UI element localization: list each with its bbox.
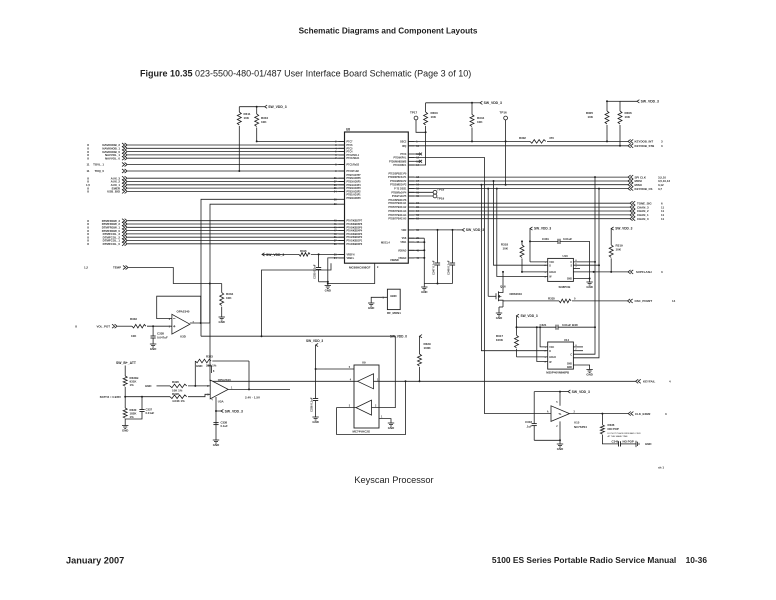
svg-text:47: 47 [416,241,419,244]
capacitor C33B [213,422,218,424]
svg-text:GND: GND [557,447,563,451]
pin 40 VDDAD [408,249,414,251]
svg-text:4: 4 [669,380,671,384]
svg-text:C: C [570,354,572,356]
wire DTMFCOL_1 [128,240,345,242]
wire U11 W [537,327,548,361]
wire TEMP to op-amp U3D output [129,268,222,284]
svg-text:PTC3: PTC3 [400,154,407,156]
svg-text:U8: U8 [346,128,350,132]
wire bus to U8 bottom [262,263,332,336]
wire MOSI [408,180,628,182]
svg-text:4: 4 [211,399,213,402]
svg-text:TOVL_1: TOVL_1 [93,163,104,167]
wire EMER [128,187,345,189]
power SW_VDD_3 (U9) [316,343,319,346]
power SW_VDD_3 (U3A) [216,410,221,412]
pin 12 PTD6/KPAL [408,157,414,159]
wire R303 top to SW_VDD_3 [426,102,472,104]
svg-text:PTA2/KBD2P2: PTA2/KBD2P2 [347,236,363,239]
svg-text:5: 5 [169,326,171,328]
svg-text:PTC0/TxD2: PTC0/TxD2 [347,171,360,173]
buffer U9A [358,374,374,389]
svg-text:DO NOT PLACE R336 AND C349: DO NOT PLACE R336 AND C349 [608,432,642,435]
svg-text:TOQ_0: TOQ_0 [95,169,105,173]
pin 52 PTD8/TPB4C-H5 [408,218,414,220]
resistor R335 inline [559,299,571,303]
wire U10 VCC [529,241,531,262]
svg-text:GND: GND [325,289,331,293]
wire U11 VCC [540,327,548,347]
svg-text:C: C [570,262,572,264]
svg-text:GND: GND [567,363,572,365]
svg-text:D: D [549,351,551,353]
connector KEYFAIL [636,379,641,383]
svg-text:0.01uF: 0.01uF [146,411,155,415]
capacitor C318 [533,392,535,424]
svg-text:PTB1/AD1P1: PTB1/AD1P1 [347,194,362,197]
power SW_VDD_3 (above R319) [611,227,614,230]
pin 28 PTE1 wire to lower bus [201,199,345,336]
svg-text:IRQ: IRQ [402,146,406,148]
svg-text:NAVVOL_0: NAVVOL_0 [105,156,120,160]
svg-text:8: 8 [75,324,77,328]
resistor R330 [124,397,126,408]
svg-text:8: 8 [213,371,215,373]
svg-text:3: 3 [574,411,576,413]
junction R311 to TOQ_0 [238,170,240,172]
wire CLK_EXM2 output [570,413,629,415]
ground U10 [589,279,591,283]
ground RF_MON1 [368,302,374,304]
pin 39 PTA0/KBD0P0 [339,243,345,245]
pin 7 U10 stub [573,268,580,270]
pin 51 PTA2/KBD2P2 [339,236,345,238]
pin 37 PTA1/KBD1P1 [339,240,345,242]
wire U3D output [190,322,210,324]
wire U10 D from MOSI [494,181,548,265]
svg-text:8: 8 [87,190,89,194]
svg-text:GND: GND [586,373,592,377]
svg-text:KEYFAIL: KEYFAIL [643,380,655,384]
svg-text:GND: GND [388,426,394,430]
resistor R333 inline [132,324,146,328]
pin 5 PTC4 [339,151,345,153]
test point TP16 [504,116,508,120]
svg-text:VREFL: VREFL [347,258,355,260]
resistor R323 feedback [194,361,196,386]
wire RF_MON1 pin 1 [371,297,387,303]
wire NAVKNOB_1 [128,147,345,149]
svg-text:TP19: TP19 [437,197,445,201]
svg-text:R335: R335 [548,296,555,300]
resistor R329 [419,336,421,354]
svg-text:SW_VDD_3: SW_VDD_3 [615,227,632,231]
svg-text:PTE2/SPB2C-P0: PTE2/SPB2C-P0 [388,173,407,175]
resistor R317 [516,327,518,335]
wire AUX_2 [128,181,345,183]
svg-text:VDDAD: VDDAD [398,249,407,252]
resistor R319 [610,229,612,245]
svg-text:TL: TL [558,412,562,416]
pin 24 PTB2/AD2P2 [339,190,345,192]
wire U11 D from MISO [481,185,547,351]
svg-text:CHAN_0: CHAN_0 [637,217,649,221]
test point TP19 [408,195,433,197]
svg-text:2: 2 [556,426,558,428]
svg-text:PTD0/SPSCK-P1: PTD0/SPSCK-P1 [388,177,407,179]
svg-text:4: 4 [544,361,546,364]
wire CHAN_3 [408,206,630,208]
svg-text:SW_VDD_3: SW_VDD_3 [306,339,323,343]
wire U9B input loop [337,381,406,434]
buffer U9B [356,400,372,415]
svg-text:10K: 10K [477,120,483,124]
pin 30 VDD [408,229,414,231]
svg-text:KEYDOB_CS: KEYDOB_CS [635,187,653,191]
svg-text:GND: GND [312,420,318,424]
wire NAVKNOB_0 [128,151,345,153]
ground U3A [213,439,219,441]
svg-text:SW_VDD_3: SW_VDD_3 [225,409,243,413]
svg-text:USB_BIO: USB_BIO [107,190,121,194]
svg-text:January 2007: January 2007 [66,556,124,566]
svg-text:PTC1/RxD2: PTC1/RxD2 [347,165,360,167]
svg-text:0.1uF: 0.1uF [221,424,229,428]
capacitor C349 no-pop [602,435,618,444]
resistor R331B [123,376,127,386]
wire USB_BIO [128,190,345,192]
svg-text:NC7SP04: NC7SP04 [574,425,587,429]
svg-text:NDS0610: NDS0610 [510,292,523,296]
svg-text:VOL_POT: VOL_POT [97,324,111,328]
pin 56 PTD4/TPB4C-H1 [408,202,414,204]
svg-text:10K: 10K [431,115,437,119]
svg-text:C335 0.1uF: C335 0.1uF [313,264,317,279]
pin 18 PTD0/SPSCK-P1 [408,176,414,178]
wire U10 GND [573,278,589,280]
pin 2 PTC7 [339,140,345,142]
svg-text:3: 3 [661,144,663,148]
svg-text:VSS1: VSS1 [400,242,407,244]
resistor R303 [425,103,427,112]
svg-text:TP18: TP18 [437,188,445,192]
svg-text:PTC5: PTC5 [347,148,354,150]
svg-text:100K: 100K [496,338,504,342]
wire U3D feedback loop [157,296,201,323]
wire DTMFCOL_0 [128,243,345,245]
svg-text:40: 40 [416,249,419,252]
buffer U15 [551,406,570,422]
wire C331 to ground [589,241,591,278]
svg-text:VSS: VSS [402,238,407,240]
wire U10 S to CS bus [573,264,599,266]
wire NAVVOL_0 [128,157,345,159]
svg-text:OPA2340: OPA2340 [177,310,190,314]
connector OSC_PCM2T [628,299,633,303]
svg-text:TP17: TP17 [410,111,418,115]
svg-text:PTA9/TxD-P5: PTA9/TxD-P5 [392,195,407,198]
wire DTMFROW_2 [128,223,345,225]
pin 16 PTD2/MISO-P3 [408,184,414,186]
ground C338 [150,343,156,345]
svg-text:PTC6: PTC6 [347,145,354,147]
svg-text:PTB8/RxD-P4: PTB8/RxD-P4 [391,191,407,194]
wire U11 HOLD [517,356,548,358]
wire CLK from U8 pin 12 [408,158,551,414]
svg-text:Keyscan Processor: Keyscan Processor [354,475,433,485]
svg-text:GND: GND [586,285,592,289]
svg-text:2: 2 [207,386,209,388]
wire OSC2 net [257,140,345,142]
pin 13 PTD5/WHDBMS [408,160,414,162]
IC U10 serial EEPROM [548,258,574,281]
svg-text:PTA5/KBD5P5: PTA5/KBD5P5 [347,226,363,229]
svg-text:10K: 10K [261,120,267,124]
op-amp U3A [210,380,228,399]
wire NAVVOL_1 [128,154,345,156]
wire DTMFCOL_2 [128,236,345,238]
power SW_VDD_3 (U10) [530,227,533,230]
pin 43 PTA7/KBD7P7 [339,220,345,222]
svg-text:10K: 10K [131,334,137,338]
wire TONE_SIG [408,202,630,204]
svg-text:1,2: 1,2 [84,266,88,270]
svg-text:PTA0/KBD0P0: PTA0/KBD0P0 [347,243,363,246]
svg-text:6: 6 [169,319,171,321]
capacitor C321 [517,326,557,328]
ground R330 [122,425,128,427]
pin 10 IRQ [408,145,414,147]
pin 8 PTC1/RxD2 [339,164,345,166]
svg-text:10K: 10K [244,116,250,120]
svg-text:U3A: U3A [218,399,225,403]
wire KEYDOB_INT to connector [547,140,628,142]
svg-text:W: W [549,362,552,364]
capacitor C348 [452,230,454,263]
wire CHAN_2 [408,210,630,212]
pin 26 PTB4/AD4P4 [339,184,345,186]
wire KEYDOB_CS [408,188,628,190]
svg-text:54: 54 [416,210,419,213]
svg-text:3: 3 [207,395,209,397]
wire OSC_PCM2T [503,300,505,302]
transistor Q16 [488,295,496,297]
pin 14 PTC4/OSC1 [408,164,414,166]
svg-text:1%: 1% [130,383,135,387]
wire CHAN_0 [408,218,630,220]
svg-text:NO POP: NO POP [608,427,619,431]
wire U11 GND [573,365,589,370]
svg-text:45: 45 [334,226,337,229]
svg-text:PTC7: PTC7 [347,141,354,143]
svg-text:8: 8 [87,156,89,160]
svg-text:R328: R328 [172,392,179,396]
svg-text:SW_VDD_3: SW_VDD_3 [484,101,502,105]
wire VREFL [328,258,345,284]
bus vertical SPI CLK to U11 [573,177,595,354]
svg-text:PTA3/KBD3P3: PTA3/KBD3P3 [347,233,363,236]
svg-text:SO8PCB: SO8PCB [559,285,571,289]
pin 6 PTC2/SCL1 [339,154,345,156]
svg-text:MC68HC908GF: MC68HC908GF [349,265,371,269]
svg-text:PTA6/KBD6P6: PTA6/KBD6P6 [347,223,363,226]
svg-text:C318: C318 [525,420,532,424]
svg-text:PTB7/AD7P7: PTB7/AD7P7 [347,174,362,177]
wire TOVL_1 [128,164,345,166]
svg-text:11: 11 [86,169,89,173]
wire KEYDOB_INT from U8 pin 1 [408,140,530,142]
svg-text:4: 4 [335,147,337,150]
wire AUX_1 [128,184,345,186]
wire DTMFROW_1 [128,226,345,228]
pin 17 PTD1/MOSI-P2 [408,180,414,182]
svg-text:43: 43 [334,220,337,223]
svg-text:10K: 10K [226,296,232,300]
pin 55 PTD5/TPB4C-H2 [408,206,414,208]
svg-text:GND: GND [196,364,202,368]
power SW_VDD_3 (above R344) [472,102,480,104]
svg-text:W: W [549,277,552,279]
svg-text:OSC_PCM2T: OSC_PCM2T [635,299,653,303]
svg-text:SUPFLASH: SUPFLASH [636,270,652,274]
power SW_VDD_3 (U11) [517,314,520,317]
no-connect pin PTC3 [414,153,420,155]
wire TP16 branch down [505,141,507,184]
svg-text:PTB4/AD4P4: PTB4/AD4P4 [347,184,362,187]
pin 47 VSS1 [408,241,414,243]
wire R326 to inverting input [188,385,210,387]
svg-text:DTMFCOL_0: DTMFCOL_0 [103,242,121,246]
svg-text:22K 1%: 22K 1% [206,364,217,368]
svg-text:SW_VDD_3: SW_VDD_3 [521,314,538,318]
svg-text:100K: 100K [424,346,432,350]
wire U15 GND [534,439,560,441]
test point TP17 [414,116,418,120]
wire U10 HOLD [522,271,548,273]
svg-text:PTD6/KPAL: PTD6/KPAL [394,157,407,160]
svg-text:PTD8/TPB4C-H5: PTD8/TPB4C-H5 [388,218,407,221]
pin 60 PTA9/TxD-P5 [408,195,414,197]
microcontroller U8 [345,132,409,263]
svg-text:PTB6/AD6P6: PTB6/AD6P6 [347,177,362,180]
svg-text:AT THE SAME TIME: AT THE SAME TIME [608,435,629,438]
svg-text:R302: R302 [519,136,526,140]
ground U9 [388,422,394,424]
svg-text:4.64K 1%: 4.64K 1% [172,399,185,403]
svg-text:GND: GND [496,316,502,320]
svg-text:GND: GND [567,279,572,281]
svg-text:MC74VHC2G: MC74VHC2G [353,429,371,433]
svg-text:TP16: TP16 [500,111,508,115]
wire KEYDOB_STB from U8 pin 10 [408,145,628,147]
power SW_VDD_3 (above R305 R306) [607,100,620,102]
pin 1 OSC2 [408,140,414,142]
svg-text:0.01uF B4D: 0.01uF B4D [562,323,578,327]
wire SPI_CLK [408,176,628,178]
power SW_VDD_3 (top left) [239,106,256,108]
pin 4 PTC5 [339,147,345,149]
svg-text:PTC2/SCL1: PTC2/SCL1 [347,155,360,157]
resistor R310 [256,107,258,114]
svg-text:PTB2/AD2P2: PTB2/AD2P2 [347,190,362,193]
capacitor C335 [318,254,320,267]
svg-text:C349: C349 [612,440,619,444]
svg-text:24: 24 [334,190,337,193]
svg-text:R323: R323 [206,355,213,359]
connector SUPFLASH [628,270,633,274]
svg-text:M25P40VMN6PB: M25P40VMN6PB [546,370,569,374]
svg-text:10K: 10K [587,115,593,119]
power SW_VDD_0 (above R329) [420,335,423,338]
connector KEYDOB_INT [628,139,633,143]
svg-text:34: 34 [334,257,337,260]
resistor R311 [238,107,240,112]
pin 49 PTA3/KBD3P3 [339,233,345,235]
svg-text:PTB3/AD3P3: PTB3/AD3P3 [347,187,362,190]
op-amp U3D [172,314,190,334]
pin 3 PTC6 [339,144,345,146]
svg-text:HOLD: HOLD [549,272,556,274]
pin 25 PTB3/AD3P3 [339,187,345,189]
pin 27 PTB5/AD5P5 [339,181,345,183]
wire SUPFLASH [573,271,628,273]
svg-text:.1uF: .1uF [526,425,532,429]
pin 11 PTC3 [408,153,414,155]
svg-text:PTA4/KBD4P4: PTA4/KBD4P4 [347,230,363,233]
wire R328 to non-inverting input [188,394,210,396]
pin 53 PTD7/TPB4C-H4 [408,214,414,216]
pin 29 PTE0 wire to KEYFAIL bus [210,204,345,381]
svg-text:PTD7/TPB4C-H4: PTD7/TPB4C-H4 [388,214,407,217]
resistor R316 inline [299,253,310,257]
resistor R328 inline [170,395,187,399]
wire U9B output to upper bus [201,336,395,407]
svg-text:GND: GND [122,429,128,433]
wire U10 W from KEYDOB_CS [497,189,548,277]
power SW_VDD_3 (VREFH) [262,253,265,256]
svg-text:PTE4/SPB4C-P6: PTE4/SPB4C-P6 [388,199,407,202]
ground U11 [586,369,592,371]
resistor R318 [521,241,523,245]
pin 29 VSS [408,237,414,239]
wire VREFH [311,253,345,255]
wire U15 VCC [559,392,561,406]
svg-text:S: S [570,265,572,267]
svg-text:TEMP: TEMP [113,266,121,270]
wire KEYFAIL [210,380,636,382]
svg-text:4: 4 [544,276,546,279]
test point TP18 [408,191,433,193]
pin 7 PTC1/SDA1 [339,157,345,159]
svg-text:sh 1: sh 1 [658,466,664,470]
capacitor C338 [152,326,154,336]
resistor R326 inline [170,384,187,388]
svg-text:VDD: VDD [401,230,406,232]
svg-text:PTD5/TPB4C-H2: PTD5/TPB4C-H2 [388,206,407,209]
svg-text:10K: 10K [625,115,631,119]
wire VDD to SW_VDD_3 [408,229,456,231]
ground U8 VSS [424,283,452,285]
svg-text:14: 14 [416,164,419,167]
svg-text:VSSAD: VSSAD [398,257,406,260]
pin 21 PTB6/AD6P6 [339,177,345,179]
ground VREF [327,284,329,286]
wire DTMFCOL_3 [128,233,345,235]
wire CHAN_1 [408,214,630,216]
ground U15 [557,443,563,445]
svg-text:PTA7/KBD7P7: PTA7/KBD7P7 [347,220,363,223]
